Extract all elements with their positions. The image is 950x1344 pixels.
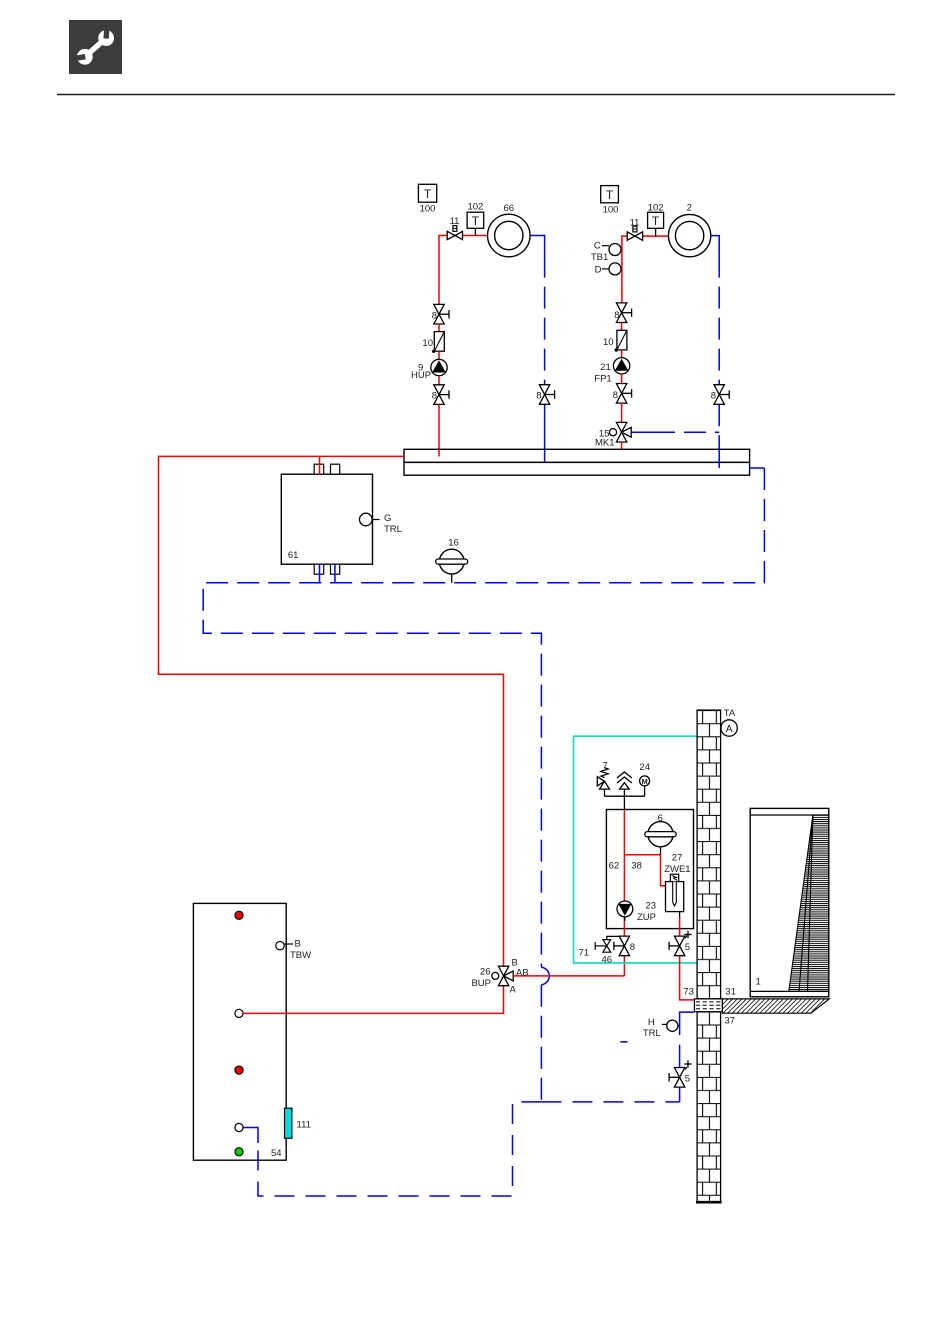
wire blue dashed MK1 to return <box>631 431 719 433</box>
svg-text:23: 23 <box>646 900 657 911</box>
svg-text:26: 26 <box>480 967 491 978</box>
port red top <box>235 911 243 919</box>
svg-text:31: 31 <box>725 986 736 997</box>
expansion vessel 6 <box>645 813 676 855</box>
wire <box>621 350 623 358</box>
svg-text:102: 102 <box>467 202 483 213</box>
air vent <box>617 772 632 789</box>
svg-text:27: 27 <box>672 853 683 864</box>
outdoor sensor TA A <box>721 708 737 736</box>
wire blue hop over red <box>541 967 549 985</box>
svg-text:G: G <box>384 513 391 524</box>
tank body 54 <box>193 903 286 1160</box>
mixing valve MK1 15 <box>595 422 631 448</box>
svg-text:54: 54 <box>271 1148 282 1159</box>
svg-text:H: H <box>648 1017 655 1028</box>
svg-text:T: T <box>424 187 432 201</box>
svg-text:8: 8 <box>536 391 541 402</box>
svg-text:A: A <box>726 723 733 735</box>
svg-text:1: 1 <box>756 977 761 988</box>
heating circuit 2 <box>668 203 710 257</box>
svg-text:TB1: TB1 <box>591 252 608 263</box>
svg-text:111: 111 <box>297 1120 311 1131</box>
wire pump to valve <box>623 917 625 936</box>
boundary 71 (cyan) <box>574 736 698 963</box>
sensor D <box>595 263 621 275</box>
wire <box>621 323 623 331</box>
wire blue to tank port <box>243 1128 258 1144</box>
sensor box T 102 (right) <box>648 203 664 236</box>
svg-text:HUP: HUP <box>411 370 431 381</box>
svg-text:FP1: FP1 <box>594 374 611 385</box>
drain valve 46 <box>595 936 624 965</box>
sensor box T 102 (left) <box>467 202 484 236</box>
wire red supply main loop <box>159 456 504 966</box>
header rule <box>57 94 895 96</box>
wire blue valve 5 to bottom bus <box>679 1087 681 1102</box>
wall duct 31 <box>694 999 722 1012</box>
svg-text:D: D <box>595 264 602 275</box>
svg-text:46: 46 <box>602 955 613 966</box>
port blue return <box>235 1123 243 1131</box>
controller box 61 <box>281 464 372 574</box>
svg-text:T: T <box>472 214 480 228</box>
svg-text:TBW: TBW <box>290 950 311 961</box>
expansion vessel 16 <box>436 538 468 583</box>
svg-text:ZUP: ZUP <box>637 912 656 923</box>
sensor B TBW <box>276 939 311 962</box>
wire ZWE1 outlet <box>679 912 681 917</box>
electric heater ZWE1 27 <box>664 853 690 912</box>
sensor H TRL <box>643 1017 680 1039</box>
svg-text:10: 10 <box>603 337 614 348</box>
wire blue dashed bottom right branch <box>541 1101 679 1103</box>
svg-text:TA: TA <box>724 708 736 719</box>
wire red unit valve drop <box>623 956 625 976</box>
wire blue into manifold right <box>718 449 720 468</box>
svg-text:37: 37 <box>725 1016 736 1027</box>
wall lower section <box>696 1012 722 1202</box>
svg-text:102: 102 <box>648 203 664 214</box>
svg-text:61: 61 <box>288 550 299 561</box>
wire red inside unit <box>624 810 665 902</box>
svg-text:62: 62 <box>609 861 620 872</box>
svg-text:8: 8 <box>630 942 635 953</box>
wire blue dashed bus (manifold to BUP riser) <box>203 468 764 967</box>
svg-text:8: 8 <box>711 391 716 402</box>
valve 11 with actuator (left) <box>447 216 462 240</box>
ground hatch <box>722 999 829 1013</box>
svg-text:21: 21 <box>600 362 611 373</box>
wire blue into manifold left <box>544 449 546 461</box>
wire red branch into box 61 <box>319 456 321 474</box>
wire blue dashed riser to bottom <box>540 985 542 1102</box>
svg-text:T: T <box>606 188 614 202</box>
wire blue dashed bottom left branch <box>258 1102 541 1196</box>
svg-text:T: T <box>652 214 660 228</box>
svg-text:B: B <box>295 939 301 950</box>
wall upper section <box>697 710 721 999</box>
wire red tank to BUP A <box>243 986 503 1014</box>
port mid with red pipe <box>235 1009 243 1017</box>
svg-text:BUP: BUP <box>471 978 491 989</box>
svg-text:TRL: TRL <box>643 1028 661 1039</box>
sensor G TRL on box 61 <box>360 513 402 535</box>
indicator 111 <box>285 1108 292 1138</box>
svg-text:10: 10 <box>422 338 433 349</box>
wire red into manifold (left circuit) <box>438 449 440 456</box>
sensor box T 100 (right) <box>601 186 619 216</box>
port green <box>235 1148 243 1156</box>
svg-text:M: M <box>641 777 647 786</box>
header icon: wrench square <box>64 18 122 74</box>
pressure gauge 24 <box>639 762 650 796</box>
wire blue manifold outlet <box>750 467 765 469</box>
valve 11 with actuator (right) <box>627 218 642 241</box>
svg-text:8: 8 <box>613 390 618 401</box>
svg-text:C: C <box>594 241 601 252</box>
wire red supply left circuit top <box>439 236 488 305</box>
wire <box>438 376 440 385</box>
manifold upper bar <box>404 449 750 462</box>
wire blue return circuit 66 <box>530 236 545 462</box>
svg-text:A: A <box>510 985 517 996</box>
stray dash <box>620 1041 627 1043</box>
svg-text:16: 16 <box>448 538 459 549</box>
svg-text:MK1: MK1 <box>595 438 615 449</box>
svg-text:TRL: TRL <box>384 524 402 535</box>
heating circuit 66 <box>488 203 531 257</box>
wire blue return circuit 2 <box>711 236 719 468</box>
wire blue stubs box 61 to bus <box>319 564 321 583</box>
wire <box>621 403 623 422</box>
safety valve 7 <box>597 760 609 796</box>
sensor box T 100 (left) <box>418 184 436 214</box>
wire red ZWE1 line to wall duct <box>680 956 695 1000</box>
wire <box>438 404 440 456</box>
wire <box>621 442 623 449</box>
svg-text:71: 71 <box>579 948 590 959</box>
wire <box>438 324 440 332</box>
heat pump unit box 62 <box>606 810 693 929</box>
port red lower <box>235 1066 243 1074</box>
svg-text:ZWE1: ZWE1 <box>664 864 690 875</box>
svg-text:100: 100 <box>420 204 436 215</box>
svg-text:2: 2 <box>687 203 692 214</box>
wire red BUP AB to unit <box>513 975 624 977</box>
svg-text:66: 66 <box>504 203 515 214</box>
svg-text:38: 38 <box>631 861 642 872</box>
svg-text:5: 5 <box>685 1074 690 1085</box>
svg-text:24: 24 <box>639 762 650 773</box>
sensor C TB1 <box>591 241 621 264</box>
wire blue from duct <box>680 1012 695 1035</box>
svg-text:100: 100 <box>603 204 619 215</box>
svg-text:5: 5 <box>685 942 690 953</box>
safety group header pipe <box>605 789 645 809</box>
wire <box>438 351 440 359</box>
wire <box>621 374 623 384</box>
wire red supply right circuit top <box>622 236 669 303</box>
manifold lower bar <box>404 462 750 475</box>
svg-text:73: 73 <box>683 986 694 997</box>
